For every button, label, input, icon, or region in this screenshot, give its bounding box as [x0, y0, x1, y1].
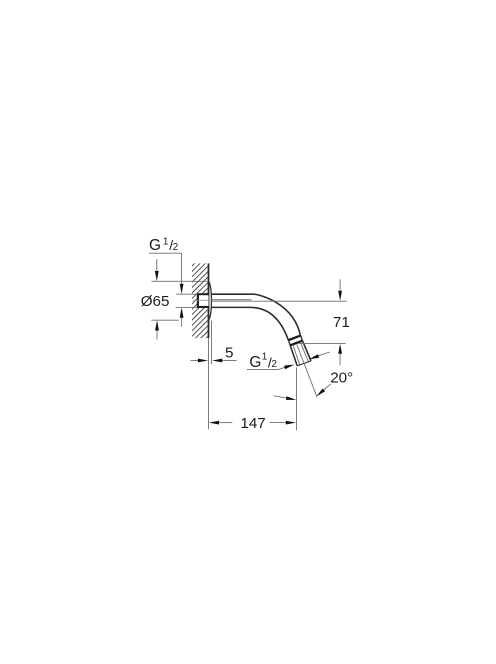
wall edge lower extension line (147 left): [208, 338, 210, 429]
dim 71: lower extension line: [299, 342, 346, 344]
flange (escutcheon) arc: [208, 282, 211, 321]
dim 20deg: arrow at vertical reference line: [274, 396, 287, 398]
dim G1/2 tip: label: [249, 351, 277, 371]
dim 147: dimension line left segment + arrow: [219, 422, 232, 424]
tube inner thin line lower / 71-dim upper extension line: [212, 300, 347, 302]
tube top edge left extension line: [176, 293, 197, 295]
dim 71: lower arrow (up): [339, 354, 341, 366]
dim Ø65: lower extension line: [151, 319, 179, 321]
shower arm tube bottom edge (straight + inner bend): [212, 307, 289, 340]
dim Ø65: upper arrow (down): [156, 259, 158, 271]
dim G1/2 tip: leader underline + arrow to tip: [247, 368, 279, 370]
thread tip left edge: [290, 345, 297, 365]
band lower line: [290, 341, 302, 346]
svg-text:2: 2: [271, 359, 277, 370]
tube bottom edge left extension line: [176, 306, 197, 308]
svg-text:147: 147: [240, 415, 265, 432]
svg-text:1: 1: [262, 351, 268, 362]
dim Ø65: upper extension line: [152, 280, 208, 282]
svg-text:2: 2: [173, 242, 179, 253]
band (thread joint) upper line: [288, 336, 300, 341]
dim 5: left arrow pointing right: [191, 360, 199, 362]
vertical reference line from tip: [296, 368, 298, 431]
dim 5: right arrow pointing left: [222, 360, 236, 362]
band side connectors: [301, 335, 303, 340]
svg-text:Ø65: Ø65: [141, 293, 170, 310]
thread tip end line: [297, 361, 311, 366]
dim 147: dimension line right segment + arrow: [270, 422, 286, 424]
wall edge line: [208, 263, 210, 338]
dim 71: upper arrow (down) above extension: [339, 279, 341, 291]
svg-text:G: G: [249, 354, 261, 371]
tube inner thin line upper: [212, 299, 252, 301]
tip axis extension line (20 deg): [297, 345, 317, 397]
thread tip right edge: [303, 341, 312, 361]
svg-text:71: 71: [333, 314, 350, 331]
shower arm tube top edge (straight + outer bend): [212, 294, 301, 335]
svg-text:G: G: [149, 237, 161, 254]
svg-text:20°: 20°: [330, 369, 353, 386]
svg-text:1: 1: [163, 236, 169, 247]
leader arrow B to thread right edge: [318, 352, 330, 356]
dim G1/2 top: leader vertical + arrow down at tube top: [181, 253, 183, 284]
wall hatching: [176, 248, 210, 368]
tube centerline through connector: [193, 299, 212, 301]
wall connector square: [197, 294, 208, 308]
dim G1/2 top: label: [149, 236, 179, 254]
thread tip inner thin lines: [293, 345, 300, 365]
dim 20deg: leader from label + arrow to axis line: [324, 384, 331, 390]
flange face extension line (5 right): [211, 321, 213, 364]
dim Ø65: lower arrow (up): [156, 331, 158, 340]
dim G1/2 top: leader horizontal: [149, 252, 182, 254]
dim G1/2 top: partner arrow up at tube bottom: [181, 318, 183, 327]
svg-text:5: 5: [225, 345, 233, 362]
